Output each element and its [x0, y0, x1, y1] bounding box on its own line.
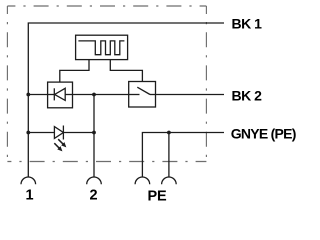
LED V2 emission arrows — [57, 138, 68, 149]
diode V1 box — [48, 82, 73, 108]
node BK2/left bus junction — [26, 93, 30, 97]
wire U1 left leg to diode box — [60, 60, 89, 83]
switch S1 contact — [129, 94, 140, 96]
wire GNYE(PE) net — [142, 133, 224, 178]
diode V1 symbol — [48, 94, 55, 96]
svg-text:BK 2: BK 2 — [232, 87, 263, 103]
wire BK2 net: diode box to switch box — [73, 94, 129, 96]
LED V2 on wire to terminal 2 — [28, 132, 54, 134]
wire PE second drop — [168, 133, 170, 178]
node LED/terminal2 junction — [92, 131, 96, 135]
pulse generator U1 waveform — [78, 41, 124, 55]
node LED/left bus junction — [26, 131, 30, 135]
wire BK2 net: switch box to label — [156, 94, 225, 96]
wire U1 right leg to switch box — [110, 60, 142, 82]
svg-text:GNYE (PE): GNYE (PE) — [231, 126, 296, 142]
svg-text:BK 1: BK 1 — [232, 16, 263, 32]
node GNYE/PE junction — [167, 131, 171, 135]
switch S1 box — [129, 82, 156, 108]
terminal PE contact arc (left) — [135, 177, 150, 184]
terminal PE contact arc (right) — [162, 177, 177, 184]
node BK2/terminal2 junction — [92, 93, 96, 97]
enclosure boundary (dash-dot border) — [7, 6, 206, 162]
wire terminal 2 vertical — [93, 95, 95, 178]
wire BK1 net (horizontal to label, corner, left vertical bus) — [28, 23, 224, 177]
pulse generator U1 (box) — [76, 35, 128, 59]
wire BK2 net: left vertical to diode box — [28, 94, 47, 96]
svg-text:2: 2 — [89, 188, 97, 204]
svg-text:PE: PE — [148, 188, 167, 204]
terminal 2 contact arc — [87, 177, 102, 184]
terminal 1 contact arc — [21, 177, 36, 184]
svg-text:1: 1 — [25, 188, 33, 204]
